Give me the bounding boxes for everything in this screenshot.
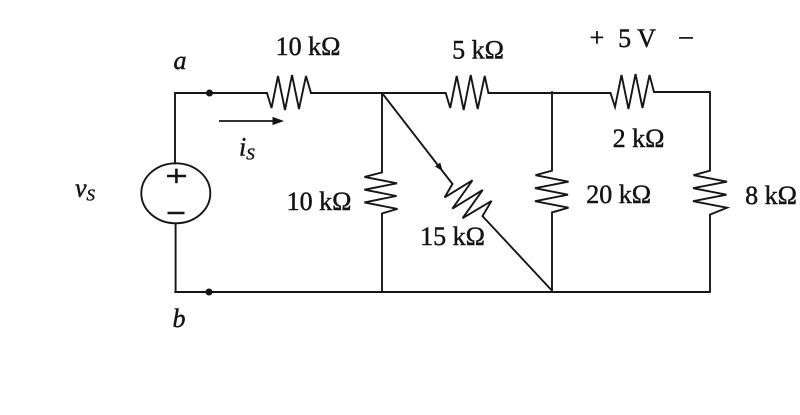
svg-text:iS: iS: [239, 133, 255, 164]
svg-text:vS: vS: [75, 174, 96, 205]
svg-text:15 kΩ: 15 kΩ: [420, 222, 485, 251]
svg-text:5 V: 5 V: [618, 24, 656, 53]
svg-text:10 kΩ: 10 kΩ: [276, 32, 341, 61]
svg-text:2 kΩ: 2 kΩ: [613, 124, 665, 153]
svg-text:5 kΩ: 5 kΩ: [452, 36, 504, 65]
svg-text:10 kΩ: 10 kΩ: [287, 187, 352, 216]
svg-text:8 kΩ: 8 kΩ: [745, 181, 797, 210]
svg-text:b: b: [173, 304, 186, 333]
svg-text:a: a: [174, 46, 187, 75]
svg-text:20 kΩ: 20 kΩ: [586, 180, 651, 209]
svg-text:+: +: [590, 23, 605, 52]
svg-text:–: –: [679, 21, 694, 50]
